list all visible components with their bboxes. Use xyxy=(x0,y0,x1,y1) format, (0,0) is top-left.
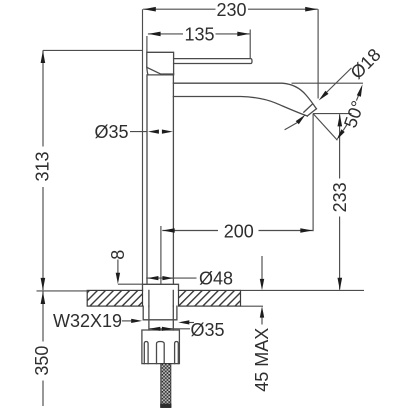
dim 200 extension right xyxy=(312,114,314,232)
flexible hose braided xyxy=(161,364,171,408)
nut slot right xyxy=(175,342,179,364)
50° arc shaft bottom xyxy=(343,124,347,130)
arrow Ø48 left xyxy=(147,276,158,280)
arrow Ø35 upper left xyxy=(148,130,159,134)
svg-text:Ø35: Ø35 xyxy=(94,122,128,142)
dim 200 line xyxy=(162,230,312,232)
dim 313 line xyxy=(42,50,44,290)
arrow Ø35 outer right xyxy=(178,320,189,324)
spout outlet face xyxy=(307,109,316,116)
deck plate hatched, right part xyxy=(179,290,241,306)
svg-text:45 MAX: 45 MAX xyxy=(252,328,272,392)
svg-text:Ø48: Ø48 xyxy=(199,269,233,289)
svg-text:313: 313 xyxy=(32,151,52,181)
svg-text:135: 135 xyxy=(184,25,214,45)
dim 233 line xyxy=(339,114,341,289)
lever wedge lines xyxy=(147,67,174,75)
dim 8 extension (flange top) xyxy=(118,283,142,285)
Ø18 leader upper xyxy=(326,68,352,93)
lever bar xyxy=(174,59,252,64)
45 MAX shaft bottom xyxy=(261,317,263,324)
arrow 135 left xyxy=(148,32,160,37)
50° angled line xyxy=(313,114,337,141)
Ø35 lower upper leader xyxy=(186,322,194,324)
svg-text:W32X19: W32X19 xyxy=(53,311,122,331)
arrow 135 right xyxy=(237,32,249,37)
nut slot middle xyxy=(157,342,165,364)
50° vertex horizontal line xyxy=(313,113,351,115)
arrow Ø35 lower left xyxy=(149,327,160,331)
arrow Ø48 right xyxy=(162,276,173,280)
dim 135 extension left xyxy=(146,36,148,52)
arrow 230 right xyxy=(305,7,317,12)
arrow 233 up xyxy=(338,114,343,126)
shank through deck hole xyxy=(149,290,173,306)
arrow 50° top xyxy=(357,84,363,97)
svg-text:200: 200 xyxy=(224,221,254,241)
dim 230 line xyxy=(143,8,318,10)
dim 135 line xyxy=(148,33,250,35)
dim 8 shaft xyxy=(117,260,119,275)
arrow 313 up xyxy=(41,51,46,63)
dim 350 extension (plate top left) xyxy=(37,290,89,292)
dim 230 extension left (back line) xyxy=(142,9,144,284)
arrow W32X19 xyxy=(131,319,142,323)
arrow Ø18 lower xyxy=(296,115,306,125)
body column left edge xyxy=(146,75,148,284)
45 MAX stub top xyxy=(261,256,263,280)
dim Ø35 lower line xyxy=(149,328,190,330)
svg-text:233: 233 xyxy=(330,182,350,212)
arrow 313 down xyxy=(41,278,46,290)
dim 313 extension top xyxy=(43,49,142,51)
shank inner lines below deck xyxy=(149,306,173,330)
base flange xyxy=(143,284,179,290)
arrow 230 left xyxy=(143,7,155,12)
50° arc shaft top xyxy=(356,94,359,101)
svg-text:Ø35: Ø35 xyxy=(190,320,224,340)
arrow 233 down xyxy=(338,278,343,290)
body column right edge xyxy=(172,75,174,284)
deck top extension right xyxy=(241,289,365,291)
50° tangent reference line xyxy=(292,82,364,84)
arrow 350 up xyxy=(41,292,46,304)
W32X19 leader xyxy=(122,320,133,322)
arrow Ø35 lower right xyxy=(162,327,173,331)
arrow 8 down xyxy=(116,273,120,284)
arrow 45MAX up xyxy=(260,306,264,317)
spout top edge xyxy=(173,83,316,109)
dim 135 extension right xyxy=(249,30,251,59)
deck bottom extension right xyxy=(241,305,264,307)
svg-text:230: 230 xyxy=(216,0,246,20)
handle pivot block xyxy=(147,52,174,75)
arrow 50° bottom xyxy=(337,129,345,140)
arrow 45MAX down xyxy=(260,279,264,290)
dim 230 extension right xyxy=(317,9,319,98)
dim Ø48 line xyxy=(146,277,196,279)
hose end fitting xyxy=(160,404,171,408)
svg-text:8: 8 xyxy=(108,250,128,260)
aerator band line xyxy=(304,104,312,112)
spout bottom edge xyxy=(173,97,307,117)
svg-text:350: 350 xyxy=(32,346,52,376)
thread block below deck xyxy=(143,306,177,320)
arrow Ø35 upper right xyxy=(162,130,173,134)
dim 200 extension left (center line) xyxy=(160,226,162,284)
deck plate hatched, left part xyxy=(87,290,240,306)
arrow Ø18 upper xyxy=(319,91,329,101)
dim Ø35 upper line xyxy=(130,131,148,133)
Ø18 leader lower xyxy=(285,122,298,129)
arrow 200 right xyxy=(300,228,312,233)
nut slot left xyxy=(144,342,148,364)
dim 350 line xyxy=(42,291,44,406)
arrow 200 left xyxy=(162,228,174,233)
mounting nut xyxy=(142,330,180,364)
